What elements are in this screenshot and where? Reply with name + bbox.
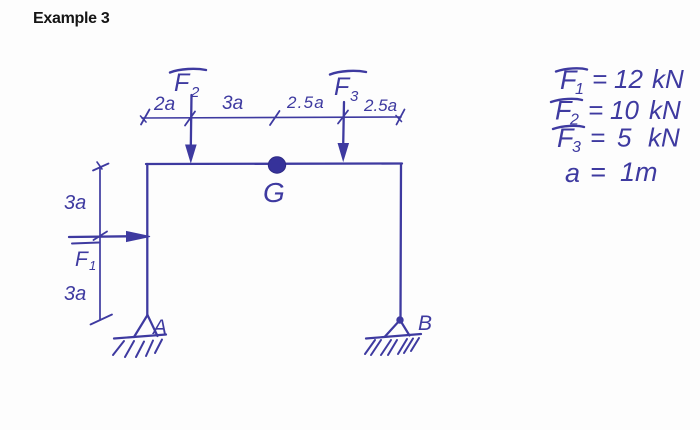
svg-text:=: =	[590, 157, 606, 187]
svg-text:a: a	[565, 158, 580, 188]
tick mid	[270, 111, 280, 125]
force F3 arrow shaft	[342, 102, 345, 145]
svg-text:2.5a: 2.5a	[286, 93, 325, 112]
F1 label overbar	[72, 243, 99, 244]
svg-text:G: G	[263, 177, 285, 208]
svg-text:=: =	[588, 95, 603, 125]
svg-text:3a: 3a	[64, 283, 86, 305]
svg-text:B: B	[418, 312, 432, 335]
svg-text:3a: 3a	[64, 192, 86, 214]
tick middle of left dim	[94, 232, 108, 241]
tick left end	[141, 110, 150, 125]
svg-text:1: 1	[575, 81, 584, 98]
tick right end	[397, 110, 405, 125]
svg-text:3: 3	[572, 139, 581, 156]
label F2	[170, 69, 206, 101]
equation F3 = 5 kN	[553, 123, 680, 157]
equation a = 1m	[565, 157, 658, 188]
label F1	[75, 248, 96, 273]
svg-text:2: 2	[190, 84, 200, 101]
left dimension line vertical	[99, 167, 101, 320]
tick at F3	[338, 111, 348, 124]
beam top chord	[146, 162, 402, 165]
force F2 arrow shaft	[190, 95, 193, 147]
svg-text:1: 1	[89, 258, 96, 273]
F2 arrowhead	[186, 145, 196, 162]
svg-text:=: =	[590, 123, 605, 153]
force F1 arrow shaft	[69, 235, 128, 238]
svg-text:5: 5	[617, 123, 632, 153]
svg-text:F: F	[174, 69, 191, 97]
svg-text:F: F	[334, 73, 351, 101]
support B hatching	[365, 338, 419, 355]
equation F2 = 10 kN	[551, 95, 681, 129]
label F3	[330, 71, 366, 105]
svg-text:12: 12	[614, 64, 643, 94]
svg-text:A: A	[151, 316, 167, 339]
top dimension line	[142, 117, 401, 118]
svg-text:=: =	[592, 64, 607, 94]
equation F1 = 12 kN	[556, 64, 684, 98]
svg-text:10: 10	[610, 95, 639, 125]
tick bottom of left dim	[91, 315, 113, 325]
support A hatching	[113, 340, 162, 358]
right column	[399, 164, 402, 320]
F3 arrowhead	[338, 144, 348, 161]
F1 arrowhead	[127, 232, 151, 242]
svg-text:kN: kN	[649, 95, 681, 125]
support B pin	[366, 317, 421, 338]
svg-text:3a: 3a	[222, 93, 243, 114]
svg-text:kN: kN	[648, 123, 680, 153]
svg-text:kN: kN	[652, 64, 684, 94]
support A pin	[114, 315, 166, 339]
left column	[146, 164, 148, 315]
svg-text:2.5a: 2.5a	[363, 96, 397, 115]
svg-text:F: F	[75, 248, 89, 271]
svg-text:2a: 2a	[153, 94, 175, 115]
node G dot	[268, 157, 285, 173]
svg-text:3: 3	[350, 88, 359, 105]
tick top of left dim	[93, 164, 109, 171]
tick at F2	[185, 112, 195, 126]
title	[33, 10, 109, 28]
svg-text:1m: 1m	[620, 157, 658, 187]
